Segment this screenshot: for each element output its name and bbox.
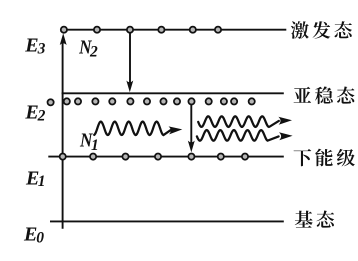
label E2 [24,101,45,124]
label E1 [25,167,46,190]
level line E2 (metastable state) [62,92,284,94]
level line E3 (excited state) [63,29,286,31]
svg-text:E: E [24,101,38,123]
label N2 [78,36,98,60]
label xianengji (lower level) [294,149,355,167]
svg-text:E: E [23,224,37,246]
transition arrow E3 to E2 [126,30,133,93]
label N1 [79,129,99,154]
label E0 [23,224,44,247]
svg-text:0: 0 [36,230,44,247]
atoms below level E2 [48,98,255,105]
atoms on level E1 [60,154,248,160]
svg-text:1: 1 [38,173,46,190]
label jitai (ground state) [295,211,334,228]
level line E0 (ground state) [50,220,284,222]
transition arrow E2 to E1 [188,104,195,152]
wavy photon arrow 3 (stimulated emission lower) [197,130,293,141]
svg-text:1: 1 [91,137,99,154]
wavy photon arrow 2 (stimulated emission upper) [198,116,292,127]
svg-text:2: 2 [37,108,46,125]
label yawentai (metastable state) [294,87,355,105]
svg-text:2: 2 [89,43,98,60]
svg-text:3: 3 [37,41,46,58]
svg-text:E: E [24,34,38,56]
atoms on level E3 [61,27,221,33]
label jifatai (excited state) [291,21,352,39]
label E3 [24,34,45,57]
wavy photon arrow 1 (E2 to E1 emission) [94,122,182,135]
energy axis (vertical line with up arrowhead) [60,33,67,229]
level line E1 (lower laser level) [48,156,283,158]
